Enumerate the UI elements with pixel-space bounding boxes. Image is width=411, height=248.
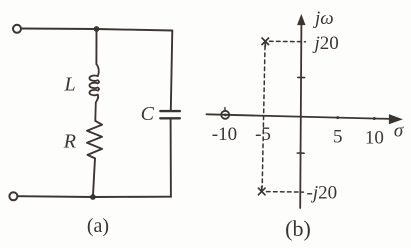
tick j10	[298, 76, 305, 78]
svg-text:5: 5	[333, 127, 343, 148]
node bottom junction	[90, 194, 96, 200]
wire top horizontal	[21, 29, 172, 31]
tick -j10	[297, 152, 304, 154]
resistor R	[87, 121, 102, 159]
pole X top	[262, 38, 269, 46]
wire dashed vertical between poles	[262, 46, 265, 187]
svg-text:R: R	[63, 131, 76, 153]
wire right branch bottom	[170, 120, 172, 197]
wire dashed horizontal to -j20	[267, 191, 304, 194]
svg-text:-j20: -j20	[307, 183, 338, 204]
svg-text:-10: -10	[212, 124, 237, 145]
wire middle branch bottom	[93, 158, 95, 197]
svg-text:jω: jω	[312, 8, 334, 29]
svg-text:C: C	[141, 103, 155, 125]
inductor L	[89, 64, 99, 121]
svg-text:j20: j20	[312, 33, 339, 54]
svg-text:(b): (b)	[285, 216, 311, 241]
wire right branch top	[171, 31, 173, 111]
tick 10	[373, 117, 376, 120]
svg-text:10: 10	[365, 128, 384, 149]
svg-text:σ: σ	[394, 121, 404, 142]
tick 5	[336, 116, 339, 119]
axis jw vertical	[300, 23, 301, 208]
axis sigma horizontal	[207, 114, 391, 119]
pole X bottom	[258, 187, 265, 195]
wire middle branch top	[95, 29, 97, 64]
node top junction	[94, 26, 100, 32]
zero at -10	[221, 111, 229, 119]
terminal bottom-left	[9, 192, 17, 200]
wire dashed horizontal to j20	[270, 40, 306, 42]
wire bottom horizontal	[18, 195, 171, 198]
svg-text:L: L	[63, 74, 75, 96]
terminal top-left	[13, 25, 21, 33]
svg-text:-5: -5	[255, 124, 271, 145]
svg-text:(a): (a)	[87, 215, 109, 237]
capacitor C plates	[160, 110, 179, 112]
